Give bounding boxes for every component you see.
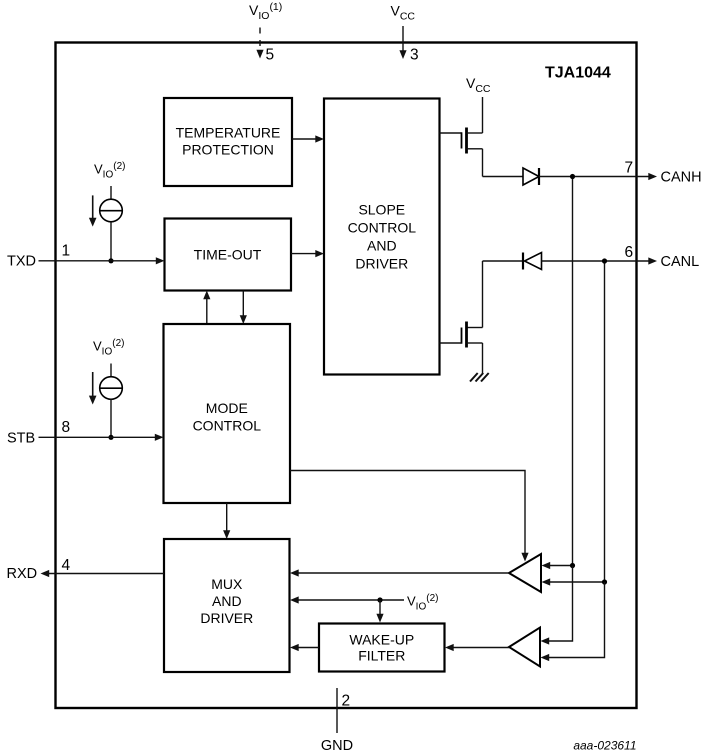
svg-text:WAKE-UP: WAKE-UP: [349, 632, 414, 648]
current source I2 (circle with bar): [100, 364, 123, 438]
wire VCC to high-side transistor drain: [482, 97, 484, 133]
wire CANL bus to RX1 input with arrow: [542, 578, 605, 585]
block TIME-OUT: [165, 219, 292, 291]
wire Q2 source down to ground: [482, 343, 484, 374]
wire CANL down to low-side transistor drain: [482, 261, 484, 328]
wire receiver RX1 output to mux with arrow: [290, 569, 509, 576]
svg-text:DRIVER: DRIVER: [200, 610, 253, 626]
wire mode control to mux (down arrow): [223, 503, 230, 539]
svg-text:DRIVER: DRIVER: [355, 256, 408, 272]
svg-text:8: 8: [62, 419, 71, 436]
wire CANL node down the bus to receivers: [604, 261, 606, 582]
wire CANH bus to RX1 input with arrow: [542, 562, 573, 569]
svg-text:AND: AND: [367, 238, 397, 254]
wire CANL to border and out with arrow: [542, 257, 658, 264]
wire temperature protection to slope control with arrow: [292, 135, 324, 142]
wire CANH from Q1 to diode: [483, 176, 524, 178]
outer boundary box of TJA1044: [56, 43, 637, 709]
svg-text:AND: AND: [212, 593, 242, 609]
svg-text:MUX: MUX: [211, 576, 243, 592]
wire CANL bus to RX2 input: [541, 582, 605, 661]
wire CANL from Q2 drain riser to diode: [483, 260, 524, 262]
svg-text:SLOPE: SLOPE: [358, 202, 405, 218]
block TEMPERATURE PROTECTION: [164, 98, 292, 186]
wire CANH node down the bus to receivers: [572, 177, 574, 566]
svg-text:CANL: CANL: [661, 254, 700, 270]
svg-text:4: 4: [62, 557, 71, 574]
wire mux to RXD with arrow (points left): [41, 570, 165, 577]
svg-text:aaa-023611: aaa-023611: [573, 739, 636, 753]
transistor Q2 low-side MOSFET: [440, 322, 483, 348]
svg-text:6: 6: [625, 244, 634, 261]
wire mode control to receiver RX1 enable (right then down, arrow): [290, 471, 529, 562]
wire VIO(2) down into wake-up filter with arrow: [376, 600, 383, 623]
junction node CANH: [570, 174, 575, 179]
junction node on TXD wire: [108, 258, 113, 263]
block MUX AND DRIVER: [164, 539, 290, 672]
svg-text:5: 5: [266, 47, 275, 64]
receiver comparator RX2 wake-up (triangle): [509, 628, 540, 667]
junction node CANL: [602, 258, 607, 263]
current direction arrow for I1: [89, 195, 97, 226]
block SLOPE CONTROL AND DRIVER: [324, 99, 440, 375]
pin 5 VIO supply dashed wire with arrow: [256, 28, 263, 59]
block MODE CONTROL: [164, 324, 291, 503]
svg-text:TIME-OUT: TIME-OUT: [194, 247, 262, 263]
junction node CANL bus at RX1: [602, 579, 607, 584]
wire GND pin 2: [336, 688, 338, 733]
svg-text:PROTECTION: PROTECTION: [182, 142, 274, 158]
ground symbol: [470, 373, 489, 382]
svg-text:RXD: RXD: [7, 566, 38, 582]
current direction arrow for I2: [89, 372, 97, 405]
svg-text:MODE: MODE: [206, 400, 248, 416]
junction node CANH bus at RX1: [570, 563, 575, 568]
svg-text:STB: STB: [7, 430, 35, 446]
wire time-out to slope control with arrow: [291, 250, 324, 257]
svg-text:2: 2: [342, 693, 351, 710]
junction node on VIO(2) wire: [377, 597, 382, 602]
svg-text:FILTER: FILTER: [358, 648, 405, 664]
pin 3 VCC supply wire with arrow: [399, 26, 406, 59]
wire VIO(2) into mux right side with arrow: [290, 596, 404, 603]
current source I1 (circle with bar): [100, 186, 123, 261]
diode D2 (CANL, cathode left): [523, 253, 542, 270]
svg-text:CANH: CANH: [661, 170, 702, 186]
wire RX2 output to wake-up filter with arrow: [445, 644, 509, 651]
svg-text:GND: GND: [321, 738, 353, 754]
svg-text:7: 7: [625, 160, 634, 177]
wire STB into mode control with arrow: [39, 434, 164, 441]
wire CANH bus to RX2 input: [541, 566, 573, 645]
wire TXD into time-out with arrow: [39, 257, 165, 264]
svg-text:TXD: TXD: [7, 254, 36, 270]
wire wake-up filter to mux with arrow: [290, 644, 319, 651]
transistor Q1 high-side MOSFET: [440, 128, 483, 154]
block WAKE-UP FILTER: [319, 624, 445, 672]
svg-text:CONTROL: CONTROL: [348, 220, 417, 236]
svg-text:CONTROL: CONTROL: [193, 418, 262, 434]
wire CANH to border and out with arrow: [539, 173, 657, 180]
svg-text:1: 1: [62, 243, 71, 260]
wire mode control to time-out (up arrow): [203, 291, 210, 325]
junction node on STB wire: [108, 435, 113, 440]
wire Q1 source down to CANH line: [482, 149, 484, 177]
receiver comparator RX1 (triangle): [509, 554, 541, 592]
diode D1 (CANH, anode left): [523, 168, 539, 185]
svg-text:3: 3: [410, 47, 419, 64]
svg-text:TJA1044: TJA1044: [545, 65, 611, 82]
wire time-out to mode control (down arrow): [240, 291, 247, 325]
svg-text:TEMPERATURE: TEMPERATURE: [176, 124, 281, 140]
